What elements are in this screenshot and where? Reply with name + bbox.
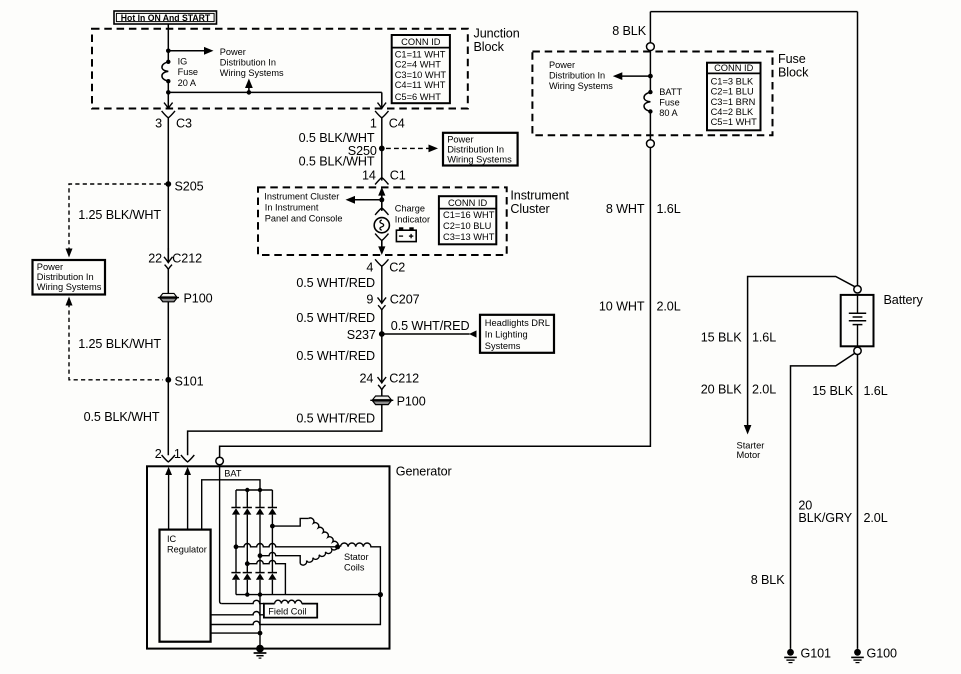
svg-text:Wiring Systems: Wiring Systems — [220, 68, 284, 78]
svg-text:80 A: 80 A — [659, 108, 678, 118]
rectifier column 2 — [243, 490, 252, 595]
svg-text:Wiring Systems: Wiring Systems — [549, 81, 613, 91]
svg-text:C4=2 BLK: C4=2 BLK — [711, 107, 754, 117]
battery positive ring — [854, 286, 861, 293]
svg-text:Wiring Systems: Wiring Systems — [37, 282, 102, 292]
svg-text:8 BLK: 8 BLK — [751, 573, 786, 587]
svg-text:Headlights DRL: Headlights DRL — [485, 318, 550, 328]
wire: C212 to P100 — [381, 390, 383, 397]
svg-text:2.0L: 2.0L — [657, 299, 681, 313]
svg-text:1.6L: 1.6L — [752, 330, 776, 344]
svg-text:Block: Block — [474, 40, 505, 54]
connector below charge indicator (female half) — [375, 234, 388, 241]
connector pin 1 at generator (female half) — [174, 447, 194, 462]
IC regulator box — [160, 530, 211, 642]
svg-text:Systems: Systems — [485, 341, 521, 351]
dashed tap: power distribution box to S101 — [66, 297, 164, 380]
dashed arrow: S250 to power distribution box — [386, 145, 438, 153]
field coil inductor — [275, 600, 302, 603]
label: Power Distribution In Wiring Systems (junction block) — [220, 47, 284, 78]
svg-text:S101: S101 — [175, 375, 204, 389]
svg-text:Fuse: Fuse — [659, 98, 679, 108]
svg-text:C3: C3 — [176, 117, 192, 131]
svg-text:Distribution In: Distribution In — [447, 144, 504, 154]
svg-text:Hot In ON And START: Hot In ON And START — [121, 13, 211, 23]
svg-text:C4: C4 — [389, 116, 405, 130]
svg-text:CONN ID: CONN ID — [714, 63, 754, 73]
svg-text:C1=16 WHT: C1=16 WHT — [443, 210, 495, 220]
battery negative ring — [854, 347, 861, 354]
battery — [841, 293, 924, 346]
svg-text:BLK/GRY: BLK/GRY — [798, 511, 852, 525]
field coil feed wire with hop — [222, 600, 264, 603]
svg-text:1: 1 — [174, 447, 181, 461]
BAT terminal ring — [216, 457, 224, 465]
svg-text:0.5 WHT/RED: 0.5 WHT/RED — [296, 311, 375, 325]
wire: C3 to S205 (1.25 BLK/WHT) — [167, 118, 169, 262]
label 8 WHT 1.6L — [606, 202, 681, 216]
connector 3 C3 (female half) — [155, 111, 192, 131]
svg-text:1.25 BLK/WHT: 1.25 BLK/WHT — [78, 337, 161, 351]
svg-text:C2=10 BLU: C2=10 BLU — [443, 221, 491, 231]
stator phase A wire (top) — [270, 518, 338, 547]
svg-text:S237: S237 — [347, 328, 376, 342]
svg-text:9: 9 — [366, 292, 373, 306]
node: tap to power-distribution arrow — [166, 49, 171, 54]
svg-text:C1=3 BLK: C1=3 BLK — [711, 76, 754, 86]
svg-text:C5=1 WHT: C5=1 WHT — [711, 117, 758, 127]
wire: BAT vertical down to field coil feed — [220, 465, 222, 604]
svg-text:Distribution In: Distribution In — [549, 71, 605, 81]
node S205 — [165, 181, 171, 187]
svg-text:Power: Power — [549, 60, 575, 70]
svg-text:C5=6 WHT: C5=6 WHT — [395, 92, 442, 102]
label: Instrument Cluster In Instrument Panel and Console — [264, 192, 342, 224]
wire: P100 to S101 — [167, 302, 169, 456]
svg-text:0.5 WHT/RED: 0.5 WHT/RED — [296, 276, 375, 290]
label 10 WHT 2.0L — [599, 299, 681, 313]
node S237 — [379, 331, 385, 337]
svg-text:Instrument: Instrument — [510, 189, 569, 203]
svg-text:C3=1 BRN: C3=1 BRN — [711, 97, 756, 107]
svg-text:22: 22 — [148, 251, 162, 265]
svg-text:0.5 WHT/RED: 0.5 WHT/RED — [296, 411, 375, 425]
svg-text:CONN ID: CONN ID — [448, 198, 488, 208]
svg-text:Distribution In: Distribution In — [220, 58, 276, 68]
svg-text:15 BLK: 15 BLK — [812, 384, 853, 398]
svg-text:C212: C212 — [389, 372, 419, 386]
rectifier column 3 — [255, 490, 264, 595]
node on ground stem — [258, 631, 263, 636]
ground stem wire — [259, 595, 261, 649]
connector 4 C2 (female half) — [366, 259, 405, 274]
arrow to starter motor — [744, 425, 752, 435]
wire: S237 branch to headlights DRL — [382, 330, 477, 337]
connector CONN ID table (junction block) — [392, 35, 450, 103]
node: junction at bus — [166, 90, 171, 95]
svg-text:C212: C212 — [172, 251, 202, 265]
IC regulator output wire (to field coil box) — [211, 612, 265, 615]
svg-text:Regulator: Regulator — [167, 545, 207, 555]
fuse block dashed boundary — [532, 52, 772, 136]
connector 22 C212 (arrow + female) — [148, 248, 202, 269]
svg-text:BAT: BAT — [224, 469, 242, 479]
svg-text:In Instrument: In Instrument — [265, 203, 319, 213]
svg-text:Fuse: Fuse — [178, 67, 198, 77]
svg-text:C2=4 WHT: C2=4 WHT — [395, 60, 442, 70]
svg-text:3: 3 — [155, 117, 162, 131]
wire: down to fuse block — [649, 12, 651, 43]
junction block dashed boundary — [92, 29, 468, 109]
fuse block label — [778, 52, 809, 80]
svg-text:C4=11 WHT: C4=11 WHT — [395, 80, 446, 90]
svg-text:0.5 BLK/WHT: 0.5 BLK/WHT — [299, 131, 375, 145]
svg-text:Stator: Stator — [344, 552, 369, 562]
fuse BATT 80A — [644, 90, 653, 114]
wire: P100 down, across to generator pin 1 — [188, 405, 382, 456]
wire: fuse to bottom junction — [167, 81, 169, 92]
label: BATT Fuse 80 A — [659, 87, 682, 118]
svg-text:Indicator: Indicator — [395, 214, 430, 224]
svg-text:Wiring Systems: Wiring Systems — [447, 154, 512, 164]
wire: pin 1 into IC regulator (up arrow) — [184, 467, 191, 530]
svg-text:C3=10 WHT: C3=10 WHT — [395, 70, 447, 80]
wire: pin 2 into IC regulator (up arrow) — [165, 467, 172, 530]
field coil label box — [264, 604, 317, 618]
ground G101 — [784, 647, 831, 663]
svg-text:S205: S205 — [175, 180, 204, 194]
power distribution box (left) — [33, 260, 106, 295]
label 15 BLK 1.6L (battery negative) — [812, 384, 887, 398]
svg-text:Fuse: Fuse — [778, 52, 806, 66]
wire: bulb to cluster bottom with down arrow — [378, 240, 385, 255]
svg-text:Coils: Coils — [344, 562, 365, 572]
svg-text:Power: Power — [220, 47, 246, 57]
svg-text:2.0L: 2.0L — [752, 382, 776, 396]
wire: ring to BATT fuse — [649, 51, 651, 93]
label: Starter Motor — [737, 440, 765, 460]
svg-text:Power: Power — [37, 262, 63, 272]
wire: top feed 8 BLK (horizontal) — [650, 11, 857, 13]
wire: battery positive to starter motor — [748, 277, 855, 428]
svg-text:20 BLK: 20 BLK — [701, 382, 742, 396]
svg-text:Block: Block — [778, 65, 809, 79]
node: branch to cluster description — [379, 197, 384, 202]
svg-text:Instrument Cluster: Instrument Cluster — [264, 192, 339, 202]
wire: horizontal bus inside junction block — [168, 91, 381, 93]
label: Power Distribution In Wiring Systems (fuse block) — [549, 60, 613, 91]
svg-text:1.25 BLK/WHT: 1.25 BLK/WHT — [78, 208, 161, 222]
cluster CONN ID table — [439, 196, 496, 244]
svg-text:C207: C207 — [390, 292, 420, 306]
connector above charge indicator (facing down) — [375, 208, 388, 215]
svg-text:Motor: Motor — [737, 450, 761, 460]
node: tap to power-distribution arrow — [648, 74, 653, 79]
svg-text:15 BLK: 15 BLK — [701, 330, 742, 344]
svg-text:Battery: Battery — [884, 293, 924, 307]
svg-text:2.0L: 2.0L — [864, 511, 888, 525]
svg-text:8 WHT: 8 WHT — [606, 202, 645, 216]
label: Charge Indicator — [395, 203, 430, 224]
svg-text:Panel and Console: Panel and Console — [265, 214, 343, 224]
svg-text:1: 1 — [370, 116, 377, 130]
svg-text:Power: Power — [447, 134, 473, 144]
IC regulator output wire (to ground stem) — [211, 632, 260, 634]
connector pin 2 at generator (female half) — [155, 447, 175, 462]
wire: C2 to C207 (0.5 WHT/RED) — [381, 266, 383, 303]
connector ring at fuse block exit — [647, 140, 655, 148]
svg-text:G100: G100 — [867, 647, 898, 661]
svg-text:1.6L: 1.6L — [657, 202, 681, 216]
svg-text:G101: G101 — [801, 647, 832, 661]
wire: C212 to P100 — [167, 269, 169, 293]
svg-text:Generator: Generator — [396, 465, 452, 479]
svg-text:Starter: Starter — [737, 440, 765, 450]
charge indicator bulb — [374, 218, 389, 233]
junction block label — [474, 27, 520, 55]
label: IG Fuse 20 A — [178, 56, 198, 88]
svg-text:C2: C2 — [389, 261, 405, 275]
wire: battery negative to G101 — [791, 353, 855, 649]
stator return wire (via bottom) — [245, 560, 285, 594]
svg-text:C1=11 WHT: C1=11 WHT — [395, 49, 446, 59]
wire: IC regulator B+ to rectifier bus — [202, 480, 260, 530]
svg-text:P100: P100 — [397, 395, 426, 409]
rectifier top bus — [236, 489, 272, 491]
wire: C4 to instrument cluster (0.5 BLK/WHT) — [381, 118, 383, 181]
wire: 8 BLK down to battery — [857, 12, 859, 286]
stator phase B wire (middle, to coils) — [234, 543, 381, 595]
IC regulator output wire (field return to bus) — [211, 595, 381, 625]
stator phase C wire (lower) — [258, 546, 338, 565]
connector 24 C212 (arrow + female) — [359, 372, 419, 390]
wire: battery negative down to G100 — [857, 355, 859, 649]
svg-text:20 A: 20 A — [178, 78, 197, 88]
svg-text:8 BLK: 8 BLK — [612, 24, 647, 38]
arrow: power distribution (left) — [613, 72, 651, 80]
hot-in-ON-and-START source box — [114, 11, 217, 24]
generator internal ground — [254, 645, 267, 658]
connector 14 C1 (female half, facing down) — [362, 169, 406, 185]
fuse CONN ID table — [707, 63, 761, 131]
rectifier bottom bus — [236, 594, 380, 596]
wire: exit arrow C3 — [164, 92, 173, 108]
wire: fuse block down to generator BAT (8 WHT / 10 WHT) — [220, 148, 651, 458]
connector 9 C207 (arrow + female) — [366, 292, 419, 310]
svg-text:In Lighting: In Lighting — [485, 330, 528, 340]
battery indicator icon — [396, 227, 416, 241]
svg-text:C3=13 WHT: C3=13 WHT — [443, 232, 495, 242]
instrument cluster label — [510, 189, 569, 217]
dashed tap: S205 to power distribution box — [66, 184, 169, 258]
grommet P100 (middle) — [370, 395, 425, 409]
svg-text:Charge: Charge — [395, 203, 425, 213]
label: Stator Coils — [344, 552, 369, 573]
fuse IG 20A — [162, 60, 171, 84]
svg-text:P100: P100 — [184, 291, 213, 305]
instrument cluster dashed boundary — [258, 187, 507, 255]
label 20 BLK/GRY 2.0L — [798, 498, 887, 525]
svg-text:Junction: Junction — [474, 27, 520, 41]
wire: fuse to exit ring — [649, 112, 651, 140]
arrow: up-tap to wiring systems text — [245, 79, 253, 95]
rectifier column 4 — [268, 490, 277, 595]
node: bottom bus dots — [245, 592, 249, 596]
rectifier column 1 — [231, 490, 240, 595]
svg-text:0.5 WHT/RED: 0.5 WHT/RED — [296, 349, 375, 363]
svg-text:Cluster: Cluster — [510, 202, 549, 216]
arrow: left to instrument cluster text — [346, 196, 382, 204]
svg-text:14: 14 — [362, 169, 376, 183]
node S250 — [379, 146, 385, 152]
generator box — [147, 466, 390, 648]
node: bus dots — [245, 488, 249, 492]
svg-text:24: 24 — [359, 372, 373, 386]
svg-text:0.5 WHT/RED: 0.5 WHT/RED — [391, 319, 470, 333]
svg-text:4: 4 — [366, 261, 373, 275]
label 15 BLK 1.6L — [701, 330, 776, 344]
svg-text:0.5 BLK/WHT: 0.5 BLK/WHT — [84, 410, 160, 424]
svg-text:IC: IC — [167, 534, 177, 544]
svg-text:Distribution In: Distribution In — [37, 272, 94, 282]
svg-text:CONN ID: CONN ID — [401, 37, 441, 47]
power distribution box (middle) — [443, 133, 518, 166]
label 20 BLK 2.0L — [701, 382, 776, 396]
wire: C207 to S237 (0.5 WHT/RED) — [381, 310, 383, 383]
svg-text:1.6L: 1.6L — [864, 384, 888, 398]
grommet P100 (left) — [158, 291, 213, 305]
svg-text:2: 2 — [155, 447, 162, 461]
wire: into cluster with up arrow — [378, 187, 385, 211]
svg-text:BATT: BATT — [659, 87, 682, 97]
svg-text:0.5 BLK/WHT: 0.5 BLK/WHT — [299, 154, 375, 168]
connector ring at fuse block entry — [647, 43, 655, 51]
svg-text:10 WHT: 10 WHT — [599, 299, 645, 313]
svg-text:IG: IG — [178, 56, 188, 66]
svg-text:C2=1 BLU: C2=1 BLU — [711, 87, 754, 97]
wire: hot box down to fuse — [167, 24, 169, 62]
connector 1 C4 (female half) — [370, 111, 405, 130]
node S101 — [165, 377, 171, 383]
arrow: power distribution in wiring systems (right) — [168, 47, 213, 55]
wire: exit arrow C4 — [378, 92, 387, 108]
svg-text:Field Coil: Field Coil — [268, 607, 306, 617]
headlights DRL box — [480, 315, 554, 353]
svg-text:C1: C1 — [390, 169, 406, 183]
ground G100 — [851, 647, 897, 663]
